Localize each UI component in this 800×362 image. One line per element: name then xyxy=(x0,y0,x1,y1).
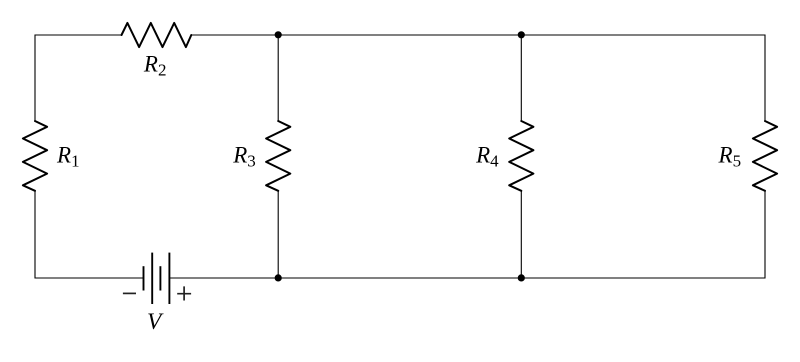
resistor R3 xyxy=(266,121,290,191)
resistor R2 xyxy=(122,23,192,47)
node top-right junction xyxy=(518,31,525,38)
resistor R4 xyxy=(509,121,533,191)
svg-text:R4: R4 xyxy=(475,143,499,171)
wire bottom-left: below R1 down and right to battery xyxy=(35,191,144,278)
resistor R1 xyxy=(23,121,47,191)
svg-text:V: V xyxy=(147,309,164,335)
node bottom-right junction xyxy=(518,274,525,281)
svg-text:R1: R1 xyxy=(56,143,80,171)
node bottom-left junction xyxy=(275,274,282,281)
node top-left junction xyxy=(275,31,282,38)
battery plate tall (positive, right) xyxy=(168,253,170,304)
wire branch above R4 xyxy=(520,35,522,121)
wire branch below R3 xyxy=(277,191,279,278)
battery plate short (negative, inner) xyxy=(159,266,161,290)
battery minus sign xyxy=(123,292,136,294)
battery plate short (negative, left) xyxy=(143,266,145,290)
svg-text:R3: R3 xyxy=(232,143,256,171)
svg-text:R5: R5 xyxy=(718,143,742,171)
battery plus sign xyxy=(177,286,191,300)
battery V xyxy=(144,253,170,304)
wire branch below R4 xyxy=(520,191,522,278)
svg-text:R2: R2 xyxy=(143,51,167,79)
battery plate tall (positive) xyxy=(151,253,153,304)
wire top-right: from R2 across to right corner down to R5 xyxy=(191,35,765,121)
wire bottom-right: from battery to bottom-right corner up to R5 xyxy=(169,191,765,278)
wire branch above R3 xyxy=(277,35,279,121)
wire top-left: lead to R2 plus left side down to R1 xyxy=(35,35,122,121)
resistor R5 xyxy=(753,121,777,191)
